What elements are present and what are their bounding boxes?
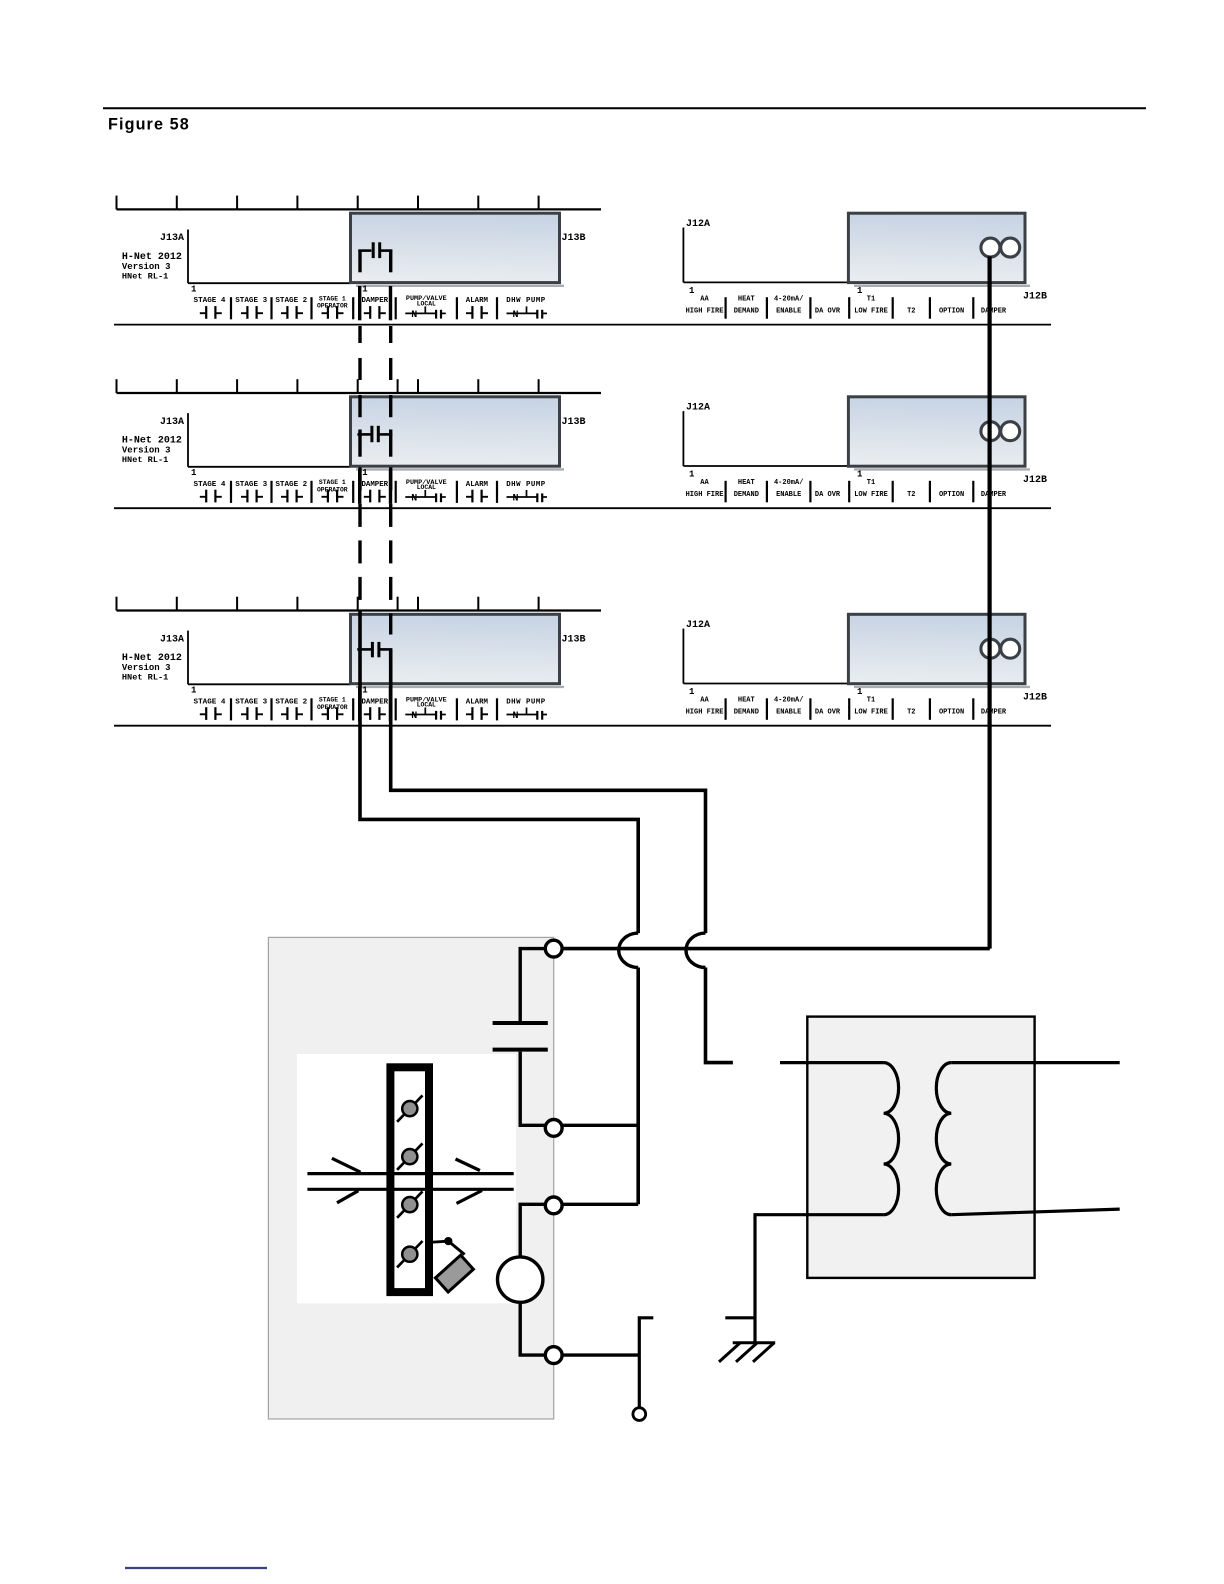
- svg-text:HEAT: HEAT: [738, 696, 755, 704]
- svg-text:T2: T2: [907, 709, 915, 717]
- svg-text:1: 1: [362, 468, 368, 478]
- svg-text:HEAT: HEAT: [738, 295, 755, 303]
- svg-text:HIGH FIRE: HIGH FIRE: [686, 307, 724, 315]
- svg-text:STAGE 4: STAGE 4: [194, 481, 226, 489]
- svg-text:DEMAND: DEMAND: [734, 709, 759, 717]
- svg-text:DHW PUMP: DHW PUMP: [506, 481, 546, 489]
- svg-text:DHW PUMP: DHW PUMP: [506, 698, 546, 706]
- svg-text:J13A: J13A: [160, 233, 184, 244]
- svg-text:LOW FIRE: LOW FIRE: [854, 307, 888, 315]
- svg-text:J12B: J12B: [1023, 475, 1047, 486]
- svg-text:STAGE 1: STAGE 1: [319, 697, 346, 704]
- svg-text:STAGE 3: STAGE 3: [235, 481, 267, 489]
- svg-text:J13A: J13A: [160, 417, 184, 428]
- svg-text:DA OVR: DA OVR: [815, 491, 841, 499]
- svg-text:DAMPER: DAMPER: [981, 491, 1007, 499]
- svg-text:ALARM: ALARM: [466, 698, 489, 706]
- svg-text:4-20mA/: 4-20mA/: [774, 479, 803, 487]
- svg-text:1: 1: [362, 686, 368, 696]
- svg-text:STAGE 3: STAGE 3: [235, 297, 267, 305]
- svg-text:DAMPER: DAMPER: [361, 698, 388, 706]
- svg-text:T2: T2: [907, 307, 915, 315]
- svg-text:STAGE 4: STAGE 4: [194, 698, 226, 706]
- svg-text:ALARM: ALARM: [466, 297, 489, 305]
- svg-text:ENABLE: ENABLE: [776, 307, 801, 315]
- svg-text:STAGE 1: STAGE 1: [319, 479, 346, 486]
- svg-text:1: 1: [191, 285, 197, 295]
- svg-text:OPERATOR: OPERATOR: [317, 486, 348, 493]
- svg-text:LOW FIRE: LOW FIRE: [854, 491, 888, 499]
- svg-text:T1: T1: [867, 295, 875, 303]
- svg-text:DHW PUMP: DHW PUMP: [506, 297, 546, 305]
- svg-text:HNet RL-1: HNet RL-1: [122, 672, 168, 682]
- svg-text:STAGE 2: STAGE 2: [275, 297, 307, 305]
- svg-text:J12A: J12A: [686, 620, 710, 631]
- svg-text:HNet RL-1: HNet RL-1: [122, 455, 168, 465]
- svg-text:STAGE 1: STAGE 1: [319, 295, 346, 302]
- svg-text:1: 1: [362, 285, 368, 295]
- svg-text:1: 1: [689, 286, 695, 296]
- svg-text:T1: T1: [867, 696, 875, 704]
- svg-text:4-20mA/: 4-20mA/: [774, 295, 803, 303]
- svg-text:1: 1: [857, 687, 863, 697]
- svg-text:4-20mA/: 4-20mA/: [774, 696, 803, 704]
- svg-text:LOCAL: LOCAL: [417, 702, 436, 709]
- svg-text:DEMAND: DEMAND: [734, 307, 759, 315]
- svg-text:N: N: [512, 494, 518, 505]
- svg-text:HNet RL-1: HNet RL-1: [122, 271, 168, 281]
- svg-text:LOCAL: LOCAL: [417, 301, 436, 308]
- svg-text:N: N: [512, 310, 518, 321]
- svg-text:1: 1: [857, 286, 863, 296]
- svg-text:OPTION: OPTION: [939, 709, 964, 717]
- svg-text:J12A: J12A: [686, 403, 710, 414]
- svg-text:J12B: J12B: [1023, 291, 1047, 302]
- svg-text:N: N: [411, 494, 417, 505]
- svg-text:DAMPER: DAMPER: [981, 307, 1007, 315]
- svg-text:T2: T2: [907, 491, 915, 499]
- svg-text:J13B: J13B: [562, 634, 586, 645]
- svg-text:OPERATOR: OPERATOR: [317, 704, 348, 711]
- svg-text:1: 1: [191, 686, 197, 696]
- svg-text:ALARM: ALARM: [466, 481, 489, 489]
- svg-text:AA: AA: [700, 295, 709, 303]
- svg-text:DAMPER: DAMPER: [361, 297, 388, 305]
- svg-text:J13B: J13B: [562, 417, 586, 428]
- svg-text:DA OVR: DA OVR: [815, 709, 841, 717]
- svg-text:LOCAL: LOCAL: [417, 484, 436, 491]
- svg-text:OPTION: OPTION: [939, 307, 964, 315]
- svg-text:T1: T1: [867, 479, 875, 487]
- svg-text:1: 1: [689, 469, 695, 479]
- svg-text:HIGH FIRE: HIGH FIRE: [686, 709, 724, 717]
- svg-text:ENABLE: ENABLE: [776, 709, 801, 717]
- svg-text:J13A: J13A: [160, 634, 184, 645]
- svg-text:AA: AA: [700, 696, 709, 704]
- svg-text:1: 1: [857, 469, 863, 479]
- svg-text:J13B: J13B: [562, 233, 586, 244]
- svg-text:STAGE 4: STAGE 4: [194, 297, 226, 305]
- svg-text:N: N: [512, 711, 518, 722]
- svg-text:DA OVR: DA OVR: [815, 307, 841, 315]
- svg-text:J12A: J12A: [686, 219, 710, 230]
- svg-text:STAGE 2: STAGE 2: [275, 698, 307, 706]
- svg-text:1: 1: [689, 687, 695, 697]
- svg-text:DAMPER: DAMPER: [361, 481, 388, 489]
- svg-text:DEMAND: DEMAND: [734, 491, 759, 499]
- svg-text:STAGE 3: STAGE 3: [235, 698, 267, 706]
- svg-text:1: 1: [191, 468, 197, 478]
- svg-text:AA: AA: [700, 479, 709, 487]
- svg-text:N: N: [411, 711, 417, 722]
- svg-text:Figure 58: Figure 58: [108, 115, 190, 133]
- svg-text:HIGH FIRE: HIGH FIRE: [686, 491, 724, 499]
- svg-text:LOW FIRE: LOW FIRE: [854, 709, 888, 717]
- svg-text:STAGE 2: STAGE 2: [275, 481, 307, 489]
- svg-text:OPERATOR: OPERATOR: [317, 303, 348, 310]
- svg-text:J12B: J12B: [1023, 693, 1047, 704]
- svg-text:N: N: [411, 310, 417, 321]
- svg-text:HEAT: HEAT: [738, 479, 755, 487]
- svg-text:OPTION: OPTION: [939, 491, 964, 499]
- svg-text:DAMPER: DAMPER: [981, 709, 1007, 717]
- svg-text:ENABLE: ENABLE: [776, 491, 801, 499]
